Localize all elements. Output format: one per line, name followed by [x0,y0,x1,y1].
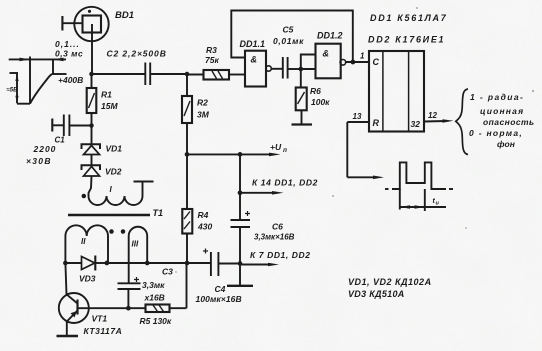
wire node to R3 [187,74,204,76]
polarity dot winding III [121,229,126,234]
svg-text:С4: С4 [215,284,226,294]
dimension 0,1...0,3 ms [9,39,84,61]
node winding III right [145,261,150,266]
svg-text:R1: R1 [101,90,112,100]
svg-text:100к: 100к [311,97,330,107]
ground at C4 node [227,264,253,286]
node C3/R5/base [126,306,131,311]
svg-text:фон: фон [497,139,515,149]
svg-text:VD3 КД510А: VD3 КД510А [348,289,405,299]
node +Up [238,152,243,157]
svg-text:С2 2,2×500В: С2 2,2×500В [107,49,167,59]
svg-text:опасность: опасность [483,117,535,127]
node R4/R5 [185,261,190,266]
svg-text:0 - норма,: 0 - норма, [469,128,523,138]
node winding II right [104,261,109,266]
svg-text:R4: R4 [198,210,209,220]
wire VD2 to winding I [89,176,92,196]
svg-text:II: II [81,237,86,246]
svg-text:DD1 К561ЛА7: DD1 К561ЛА7 [370,13,447,23]
transformer T1 winding III [129,227,148,263]
wire VT1 base [78,307,129,309]
node R2/R3 [185,72,190,77]
capacitor C4 [196,249,242,305]
svg-text:BD1: BD1 [115,10,134,21]
svg-text:Т1: Т1 [153,208,164,218]
capacitor C5 [273,25,304,79]
svg-text:+400В: +400В [58,75,83,85]
output brace [456,89,468,155]
svg-text:12: 12 [428,111,437,120]
wire rail x=240 [239,154,241,220]
node +Up rail [185,152,190,157]
svg-text:1 - радиа-: 1 - радиа- [470,92,524,102]
svg-text:3,3мк: 3,3мк [142,280,165,290]
logic gate DD1.2 [316,31,370,79]
polarity dot winding II [109,229,114,234]
svg-text:III: III [132,240,139,249]
resistor R1 15M [87,74,119,113]
svg-text:+U: +U [270,142,282,152]
node DD1.2 output / feedback [351,60,356,65]
resistor R6 100k [296,69,330,124]
svg-text:2200: 2200 [33,144,57,154]
annotation reset pulse waveform [385,162,453,211]
node tube/R1/C2 [89,72,94,77]
svg-text:3М: 3М [197,110,210,120]
wire VD1 to VD2 [91,155,93,166]
pin 13 wire [347,112,384,179]
dimension ~5V amplitude [7,73,19,103]
resistor R3 75k [204,45,230,80]
svg-text:75к: 75к [205,55,219,65]
arrow +Up [240,142,287,156]
arrow K 14 DD1 DD2 [240,178,318,195]
transistor VT1 [59,263,122,336]
capacitor C6 [231,211,295,264]
geiger tube BD1 [62,7,134,41]
svg-text:0,01мк: 0,01мк [273,36,304,46]
resistor R2 3M [182,74,210,154]
capacitor C3 [118,236,174,308]
svg-text:32: 32 [411,119,421,129]
node C1/VD1 [89,123,94,128]
ground VT1 emitter [57,335,79,337]
svg-text:VT1: VT1 [92,314,108,324]
wire tube anode down to HV node [91,24,93,74]
svg-text:R5 130к: R5 130к [140,316,172,326]
svg-text:DD2 К176ИЕ1: DD2 К176ИЕ1 [368,35,445,45]
resistor R4 430 [182,154,212,263]
node C5/R6 [298,67,303,72]
capacitor C2 [107,49,167,86]
transformer T1 winding I [82,182,154,206]
wire R3 to DD1.1 input [229,74,245,76]
svg-text:R3: R3 [206,45,217,55]
node winding II left / VT1 collector [63,261,68,266]
logic gate DD1.1 [240,39,283,87]
arrow K 7 DD1 DD2 [240,250,311,266]
svg-text:С5: С5 [283,25,294,35]
diode VD2 [82,165,122,176]
svg-text:&: & [323,49,330,59]
svg-text:1: 1 [360,52,365,61]
svg-text:DD1.1: DD1.1 [240,39,266,49]
svg-text:VD1, VD2 КД102А: VD1, VD2 КД102А [348,277,432,287]
svg-text:≈5В: ≈5В [7,88,19,94]
wire R1 to C1 node [91,113,93,126]
svg-text:0,3 мс: 0,3 мс [55,49,83,59]
svg-text:&: & [251,55,258,65]
resistor R5 130k [128,263,186,326]
pin 12 output wire [424,111,454,123]
diode VD3 [79,256,107,284]
capacitor C1 [26,115,92,167]
svg-text:R6: R6 [310,86,321,96]
svg-text:С6: С6 [272,222,283,232]
feedback wire DD1.2 out to DD1.1 input [231,11,352,63]
svg-text:15М: 15М [101,101,118,111]
svg-text:ционная: ционная [480,106,524,116]
svg-text:0,1...: 0,1... [55,39,80,49]
svg-text:430: 430 [197,222,212,232]
svg-text:13: 13 [353,112,362,121]
svg-text:VD1: VD1 [106,144,123,154]
svg-text:VD3: VD3 [79,274,96,284]
output legend text [469,92,535,149]
svg-text:C: C [373,57,380,67]
wire HV rail y=74 [92,73,146,75]
node K14 [238,190,243,195]
svg-text:п: п [283,147,287,154]
wire to +Up node [187,153,240,155]
transformer T1 winding II [65,225,108,263]
wire node to DD1.2 inputs [301,55,316,70]
wire bottom rail left [65,262,81,264]
svg-text:К 7 DD1, DD2: К 7 DD1, DD2 [250,250,311,260]
wire bottom rail to C4 [107,262,211,264]
svg-text:R2: R2 [197,98,208,108]
svg-text:DD1.2: DD1.2 [317,31,343,41]
transformer T1 core [68,214,150,217]
svg-text:VD2: VD2 [105,167,122,177]
wire C2 to R2/R3 node [150,73,187,75]
ground R6 [292,123,313,125]
diode VD1 [82,126,123,155]
svg-text:100мк×16В: 100мк×16В [196,294,242,304]
svg-text:R: R [373,118,380,128]
annotation pulse shape sketch [17,57,67,104]
svg-text:х16В: х16В [144,293,165,303]
svg-text:К 14 DD1, DD2: К 14 DD1, DD2 [252,178,318,188]
svg-text:3,3мк×16В: 3,3мк×16В [254,233,295,242]
counter DD2 [369,51,424,132]
svg-text:×30В: ×30В [26,156,52,166]
svg-text:КТ3117А: КТ3117А [84,326,123,336]
svg-text:С3: С3 [162,267,173,277]
node K7 / ground [238,261,243,266]
